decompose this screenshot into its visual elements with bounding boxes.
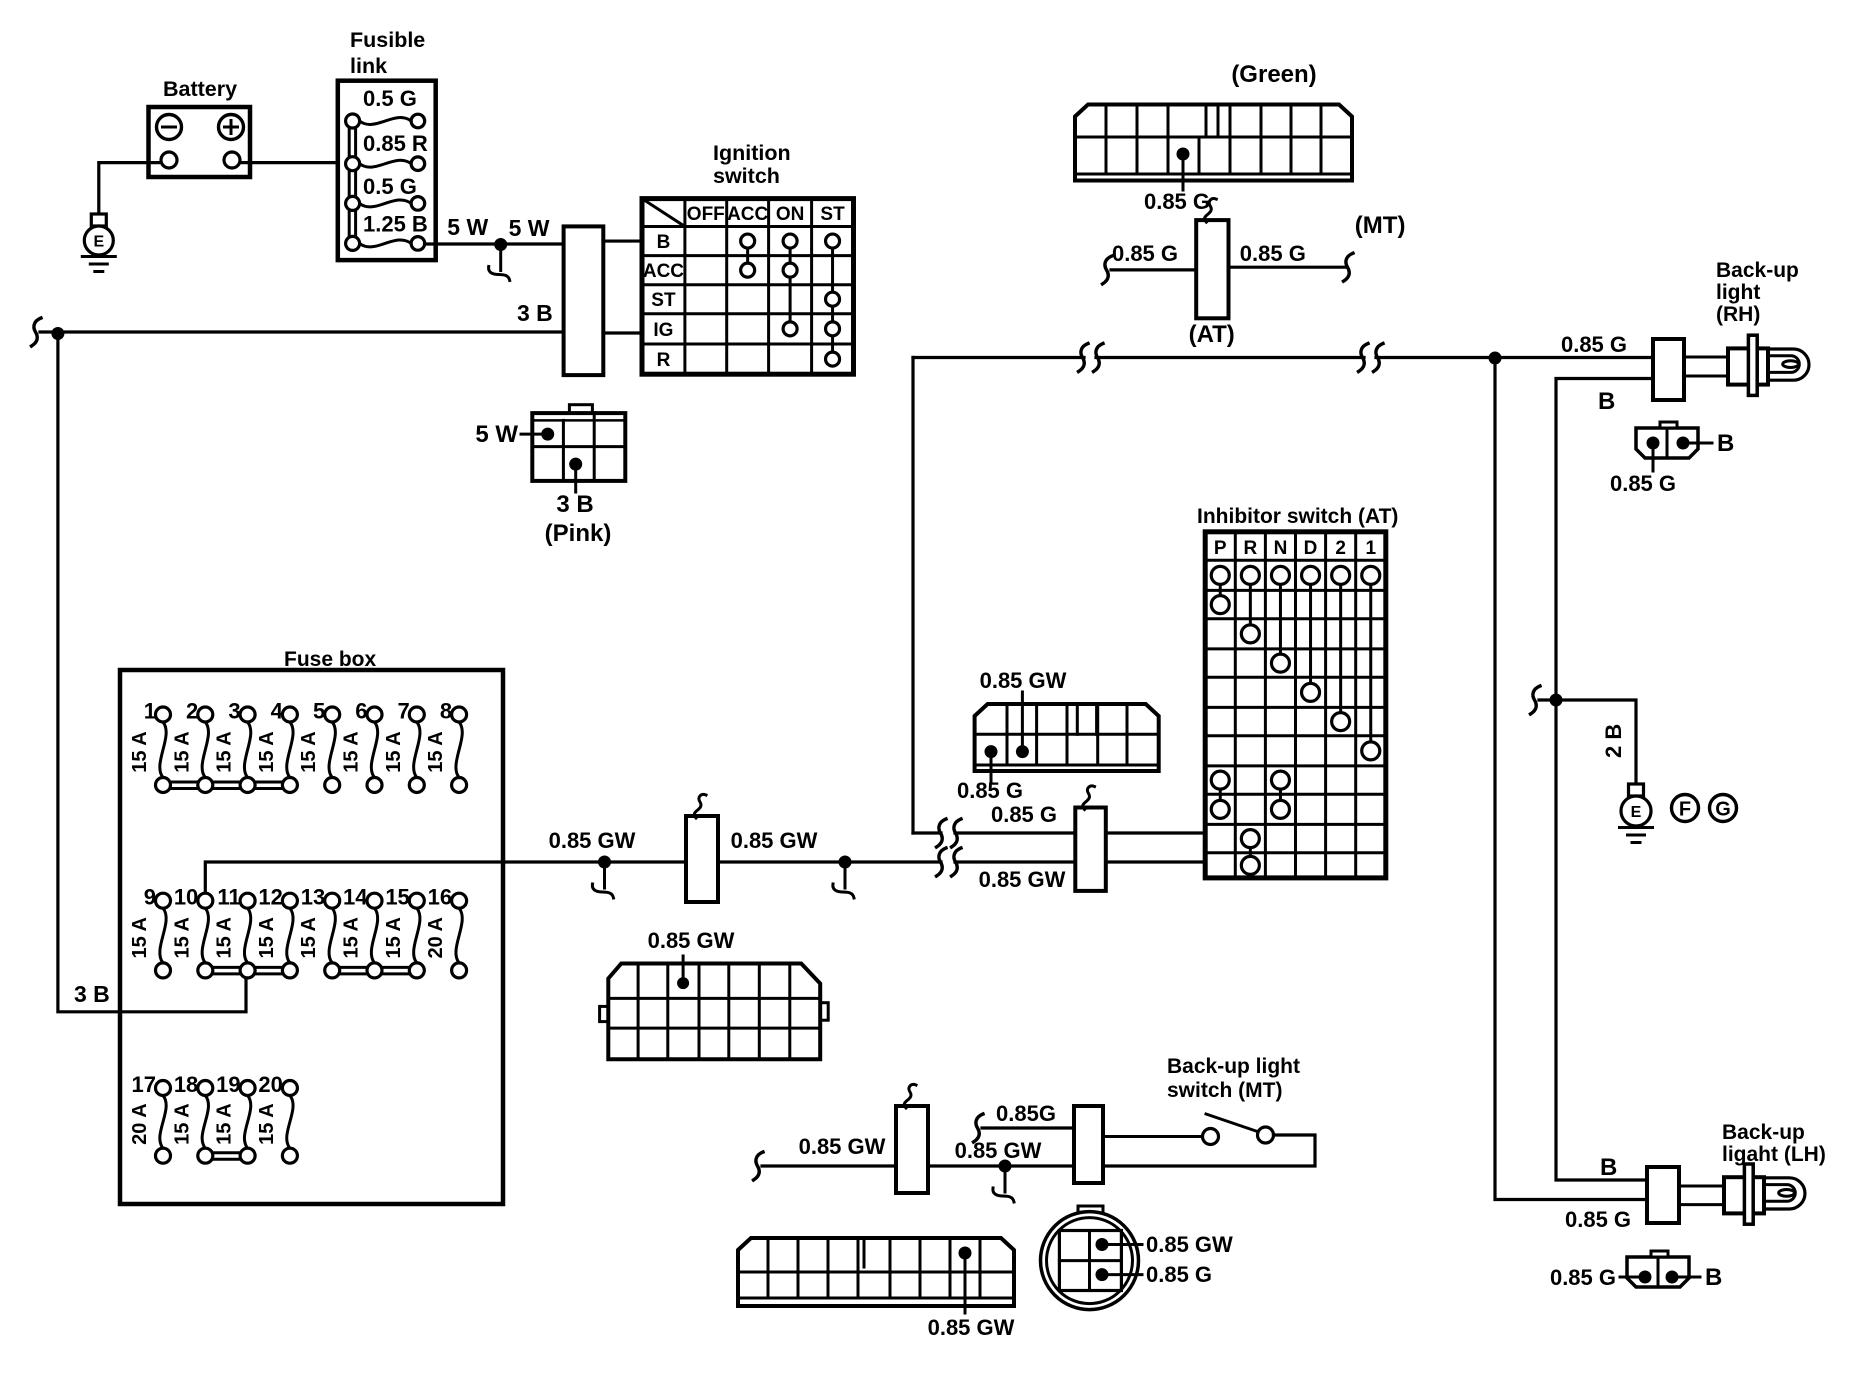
svg-text:ON: ON <box>776 204 805 225</box>
svg-text:2: 2 <box>1335 538 1346 559</box>
svg-text:15 A: 15 A <box>214 917 236 959</box>
svg-text:(MT): (MT) <box>1355 212 1406 239</box>
svg-text:5 W: 5 W <box>475 421 518 448</box>
svg-text:B: B <box>1598 388 1615 415</box>
svg-text:7: 7 <box>398 699 410 724</box>
svg-text:0.5 G: 0.5 G <box>363 86 417 111</box>
svg-text:9: 9 <box>144 885 156 910</box>
svg-text:15 A: 15 A <box>171 917 193 959</box>
svg-text:17: 17 <box>132 1072 156 1097</box>
svg-text:2: 2 <box>186 699 198 724</box>
svg-text:E: E <box>93 234 104 251</box>
svg-text:20 A: 20 A <box>425 917 447 959</box>
svg-text:Back-up: Back-up <box>1722 1121 1805 1144</box>
svg-text:15 A: 15 A <box>383 917 405 959</box>
svg-text:ST: ST <box>651 290 676 311</box>
svg-text:0.85 GW: 0.85 GW <box>928 1315 1015 1340</box>
svg-text:F: F <box>1679 799 1691 821</box>
svg-text:R: R <box>657 350 671 371</box>
svg-text:G: G <box>1715 799 1731 821</box>
svg-text:0.85 G: 0.85 G <box>1565 1207 1631 1232</box>
svg-text:switch (MT): switch (MT) <box>1167 1079 1283 1102</box>
svg-text:15 A: 15 A <box>171 731 193 773</box>
svg-text:Back-up: Back-up <box>1716 259 1799 282</box>
svg-text:P: P <box>1214 538 1227 559</box>
svg-text:ACC: ACC <box>643 261 684 282</box>
svg-text:4: 4 <box>271 699 284 724</box>
svg-text:18: 18 <box>174 1072 198 1097</box>
svg-text:0.85 G: 0.85 G <box>1144 189 1210 214</box>
svg-text:20: 20 <box>258 1072 282 1097</box>
svg-text:B: B <box>657 232 671 253</box>
svg-text:0.85 GW: 0.85 GW <box>980 668 1067 693</box>
svg-text:3 B: 3 B <box>74 981 110 1007</box>
svg-text:0.85 GW: 0.85 GW <box>731 828 818 853</box>
svg-text:16: 16 <box>428 885 452 910</box>
svg-text:light: light <box>1716 281 1760 304</box>
svg-text:0.85G: 0.85G <box>996 1101 1056 1126</box>
svg-text:0.85 G: 0.85 G <box>1146 1262 1212 1287</box>
svg-text:15 A: 15 A <box>341 731 363 773</box>
svg-text:3 B: 3 B <box>556 491 593 518</box>
svg-text:Inhibitor switch (AT): Inhibitor switch (AT) <box>1197 505 1398 528</box>
svg-text:N: N <box>1274 538 1288 559</box>
svg-text:15 A: 15 A <box>298 917 320 959</box>
svg-text:2 B: 2 B <box>1601 724 1626 758</box>
svg-text:15 A: 15 A <box>425 731 447 773</box>
svg-text:15 A: 15 A <box>171 1103 193 1145</box>
svg-text:15 A: 15 A <box>256 917 278 959</box>
svg-text:Battery: Battery <box>163 77 237 101</box>
svg-text:6: 6 <box>355 699 367 724</box>
svg-text:15 A: 15 A <box>383 731 405 773</box>
svg-text:Fuse box: Fuse box <box>284 648 377 671</box>
svg-text:15 A: 15 A <box>256 1103 278 1145</box>
svg-text:15 A: 15 A <box>214 731 236 773</box>
svg-text:0.85 G: 0.85 G <box>1550 1265 1616 1290</box>
svg-text:14: 14 <box>343 885 368 910</box>
svg-text:3: 3 <box>228 699 240 724</box>
svg-text:OFF: OFF <box>687 204 725 225</box>
svg-text:0.85 GW: 0.85 GW <box>549 828 636 853</box>
svg-text:0.85 G: 0.85 G <box>1610 471 1676 496</box>
svg-text:5: 5 <box>313 699 325 724</box>
svg-text:ACC: ACC <box>727 204 768 225</box>
svg-text:B: B <box>1600 1154 1617 1181</box>
svg-text:0.85 GW: 0.85 GW <box>1146 1232 1233 1257</box>
svg-text:15 A: 15 A <box>298 731 320 773</box>
svg-text:Back-up light: Back-up light <box>1167 1055 1300 1078</box>
svg-text:R: R <box>1243 538 1257 559</box>
svg-text:(Pink): (Pink) <box>545 520 612 547</box>
svg-text:15 A: 15 A <box>214 1103 236 1145</box>
svg-text:1: 1 <box>1365 538 1376 559</box>
svg-text:13: 13 <box>301 885 325 910</box>
svg-text:(Green): (Green) <box>1231 61 1316 88</box>
svg-text:0.85 G: 0.85 G <box>957 778 1023 803</box>
svg-text:switch: switch <box>713 164 780 188</box>
svg-text:E: E <box>1631 804 1642 821</box>
svg-text:5 W: 5 W <box>447 214 488 240</box>
svg-text:19: 19 <box>216 1072 240 1097</box>
svg-text:link: link <box>350 54 387 78</box>
svg-text:1: 1 <box>144 699 156 724</box>
svg-text:0.85 G: 0.85 G <box>1561 332 1627 357</box>
svg-text:15 A: 15 A <box>129 731 151 773</box>
svg-text:15 A: 15 A <box>256 731 278 773</box>
svg-text:0.85 GW: 0.85 GW <box>979 867 1066 892</box>
svg-text:5 W: 5 W <box>509 215 550 241</box>
svg-text:0.85 GW: 0.85 GW <box>955 1138 1042 1163</box>
svg-text:(RH): (RH) <box>1716 303 1760 326</box>
svg-text:0.85 G: 0.85 G <box>1240 241 1306 266</box>
svg-text:ST: ST <box>820 204 845 225</box>
svg-text:11: 11 <box>217 885 240 910</box>
svg-text:1.25 B: 1.25 B <box>363 212 428 237</box>
svg-text:0.85 G: 0.85 G <box>1112 241 1178 266</box>
svg-text:10: 10 <box>174 885 198 910</box>
svg-text:8: 8 <box>440 699 452 724</box>
svg-text:15: 15 <box>385 885 409 910</box>
svg-text:15 A: 15 A <box>129 917 151 959</box>
svg-text:0.85 G: 0.85 G <box>991 802 1057 827</box>
svg-text:B: B <box>1717 430 1734 457</box>
svg-text:0.85 GW: 0.85 GW <box>648 928 735 953</box>
svg-text:B: B <box>1705 1264 1722 1291</box>
svg-text:ligaht (LH): ligaht (LH) <box>1722 1143 1826 1166</box>
svg-text:15 A: 15 A <box>341 917 363 959</box>
svg-text:IG: IG <box>653 320 673 341</box>
svg-text:12: 12 <box>258 885 282 910</box>
svg-text:0.5 G: 0.5 G <box>363 174 417 199</box>
svg-text:3 B: 3 B <box>517 300 553 326</box>
svg-text:Ignition: Ignition <box>713 141 791 165</box>
svg-text:0.85 GW: 0.85 GW <box>799 1134 886 1159</box>
svg-text:0.85 R: 0.85 R <box>363 131 428 156</box>
svg-text:20 A: 20 A <box>129 1103 151 1145</box>
svg-text:D: D <box>1304 538 1318 559</box>
svg-text:(AT): (AT) <box>1189 321 1235 348</box>
svg-text:Fusible: Fusible <box>350 28 425 52</box>
